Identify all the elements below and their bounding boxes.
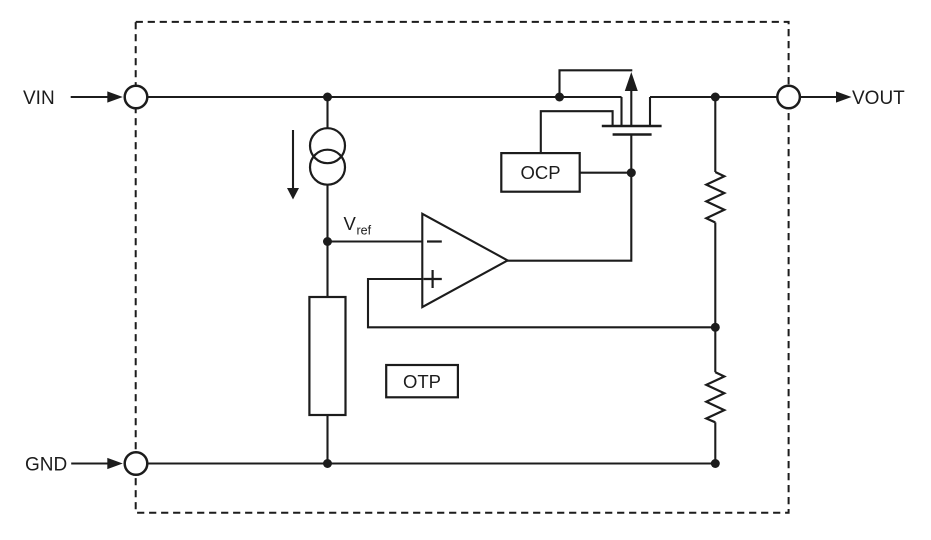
svg-text:GND: GND — [25, 455, 67, 476]
svg-text:V: V — [344, 213, 357, 234]
svg-text:VIN: VIN — [23, 88, 55, 109]
svg-text:VOUT: VOUT — [852, 88, 905, 109]
svg-text:ref: ref — [357, 224, 372, 238]
svg-text:OCP: OCP — [520, 162, 560, 183]
svg-text:OTP: OTP — [403, 371, 441, 392]
